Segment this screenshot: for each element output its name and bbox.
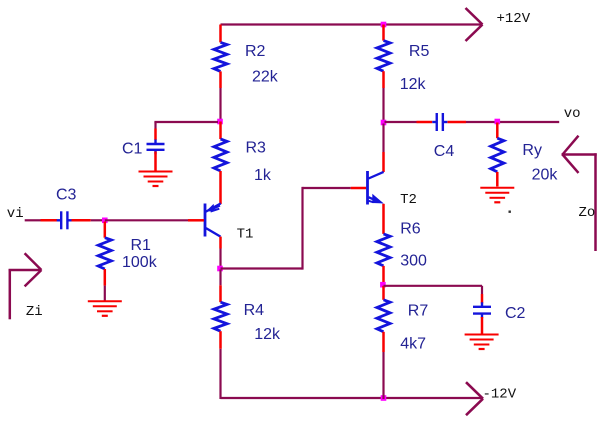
label R1 bbox=[131, 237, 152, 254]
label R6 bbox=[400, 221, 421, 238]
resistor Ry bbox=[491, 138, 504, 172]
wire C2 top pin bbox=[481, 294, 484, 303]
wire node B to T2 base bbox=[221, 187, 351, 270]
resistor R5 bbox=[377, 41, 390, 72]
wire C1 top pin bbox=[154, 129, 157, 141]
svg-text:12k: 12k bbox=[400, 76, 427, 93]
node top rail / R5 bbox=[381, 22, 387, 28]
label C3 bbox=[56, 186, 77, 203]
svg-text:R5: R5 bbox=[409, 43, 430, 60]
svg-text:-12V: -12V bbox=[483, 387, 517, 403]
svg-text:R7: R7 bbox=[408, 302, 429, 319]
capacitor C1 bbox=[147, 140, 165, 155]
wire C3 left pin bbox=[41, 219, 58, 222]
wire node D to C4 bbox=[385, 121, 417, 123]
svg-text:T1: T1 bbox=[237, 226, 254, 242]
wire R2 to node A bbox=[219, 88, 221, 121]
wire +12V top rail bbox=[221, 23, 482, 25]
wire R3 top pin bbox=[219, 122, 222, 140]
svg-text:C1: C1 bbox=[122, 140, 143, 157]
label R7 bbox=[408, 302, 429, 319]
wire T2 base pin bbox=[351, 187, 366, 190]
wire node E to C2 bbox=[384, 286, 483, 294]
svg-text:+12V: +12V bbox=[497, 11, 531, 27]
power arrow -12V bbox=[466, 382, 483, 415]
wire -12V bottom rail bbox=[221, 397, 482, 399]
ground below R1 bbox=[88, 301, 122, 316]
wire R1 bottom pin bbox=[104, 269, 107, 286]
svg-text:R4: R4 bbox=[244, 302, 265, 319]
wire R4 bottom pin bbox=[219, 331, 222, 349]
svg-text:Zo: Zo bbox=[579, 205, 596, 221]
wire Ry top pin bbox=[496, 123, 499, 139]
svg-text:T2: T2 bbox=[400, 192, 417, 208]
wire C4 to vo bbox=[466, 121, 559, 123]
ground below Ry bbox=[480, 188, 514, 203]
svg-text:R2: R2 bbox=[245, 43, 266, 60]
svg-text:12k: 12k bbox=[254, 326, 281, 343]
transistor T2 (NPN) bbox=[368, 171, 384, 205]
label R2 bbox=[245, 43, 266, 60]
impedance arrow Zi bbox=[9, 253, 42, 319]
svg-text:vo: vo bbox=[564, 106, 581, 122]
label T1 bbox=[237, 226, 254, 242]
svg-text:R3: R3 bbox=[246, 140, 267, 157]
impedance arrow Zo bbox=[562, 136, 597, 251]
wire T1 base pin bbox=[188, 219, 204, 222]
stray period mark bbox=[509, 211, 511, 213]
wire T2 collector pin bbox=[382, 152, 385, 172]
wire C4 left pin bbox=[417, 121, 433, 124]
node bottom rail / R7 bbox=[381, 395, 387, 401]
label Zo bbox=[579, 205, 596, 221]
label vo bbox=[564, 106, 581, 122]
wire R2 top pin bbox=[219, 25, 222, 43]
svg-text:C4: C4 bbox=[434, 143, 455, 160]
node C (C3/R1/T1 base) bbox=[102, 218, 108, 224]
label R4 bbox=[244, 302, 265, 319]
transistor T1 (PNP) bbox=[205, 203, 221, 236]
wire C1 bottom pin bbox=[154, 152, 157, 171]
wire node C to T1 base bbox=[105, 219, 188, 221]
wire node A to C1 bbox=[154, 122, 218, 129]
capacitor C3 bbox=[57, 211, 72, 229]
label Zi bbox=[26, 304, 43, 320]
capacitor C2 bbox=[473, 302, 491, 318]
capacitor C4 bbox=[432, 113, 447, 131]
resistor R7 bbox=[377, 300, 390, 332]
svg-text:1k: 1k bbox=[254, 167, 272, 184]
wire C3 to node C bbox=[91, 219, 103, 221]
wire C3 right pin bbox=[72, 219, 91, 222]
svg-text:4k7: 4k7 bbox=[400, 335, 426, 352]
value 100k bbox=[122, 254, 158, 271]
label T2 bbox=[400, 192, 417, 208]
wire node D to T2 collector bbox=[382, 124, 384, 153]
label Ry bbox=[522, 142, 542, 159]
svg-text:R6: R6 bbox=[400, 221, 421, 238]
wire C2 bottom pin bbox=[481, 317, 484, 334]
svg-text:20k: 20k bbox=[532, 166, 559, 183]
label -12V bbox=[483, 387, 517, 403]
wire R3 to T1 emitter bbox=[219, 171, 222, 204]
label C2 bbox=[505, 305, 526, 322]
wire R1 to ground bbox=[104, 286, 106, 301]
wire C4 right pin bbox=[448, 121, 467, 124]
power arrow +12V bbox=[466, 8, 483, 41]
wire input from vi bbox=[25, 219, 41, 221]
svg-text:C3: C3 bbox=[56, 186, 77, 203]
wire R5 bottom pin bbox=[382, 71, 385, 88]
svg-text:Zi: Zi bbox=[26, 304, 43, 320]
resistor R1 bbox=[98, 238, 111, 269]
svg-text:vi: vi bbox=[7, 206, 24, 222]
ground below C2 bbox=[465, 335, 499, 350]
wire R6 bottom pin bbox=[382, 266, 385, 284]
value 22k bbox=[252, 69, 279, 86]
value 300 bbox=[400, 253, 427, 270]
node E (R6/R7/C2) bbox=[380, 282, 386, 288]
wire T1 collector pin bbox=[219, 237, 222, 249]
wire Ry bottom pin bbox=[496, 172, 499, 187]
svg-text:100k: 100k bbox=[122, 254, 158, 271]
wire R7 top pin bbox=[382, 286, 385, 300]
label R5 bbox=[409, 43, 430, 60]
resistor R2 bbox=[214, 42, 227, 71]
wire R7 to bottom rail bbox=[382, 352, 384, 399]
label C1 bbox=[122, 140, 143, 157]
svg-text:C2: C2 bbox=[505, 305, 526, 322]
node B (T1 collector/R4/link) bbox=[217, 266, 223, 272]
value 12k bbox=[400, 76, 427, 93]
wire R2 bottom pin bbox=[219, 71, 222, 88]
ground below C1 bbox=[139, 172, 173, 187]
resistor R4 bbox=[214, 302, 227, 331]
resistor R6 bbox=[377, 234, 390, 266]
wire R5 top pin bbox=[382, 25, 385, 41]
label R3 bbox=[246, 140, 267, 157]
svg-text:Ry: Ry bbox=[522, 142, 542, 159]
value 12k bbox=[254, 326, 281, 343]
wire R7 bottom pin bbox=[382, 332, 385, 352]
wire T2 emitter pin bbox=[382, 204, 385, 234]
wire T1 collector to node B bbox=[219, 249, 221, 268]
value 20k bbox=[532, 166, 559, 183]
wire R5 to node D bbox=[382, 88, 384, 121]
wire R1 top pin bbox=[104, 222, 107, 238]
wire node B to R4 bbox=[219, 270, 221, 286]
svg-text:R1: R1 bbox=[131, 237, 152, 254]
node A (R2/R3/C1) bbox=[217, 119, 223, 125]
value 1k bbox=[254, 167, 272, 184]
resistor R3 bbox=[214, 139, 227, 171]
node F (C4/Ry/vo) bbox=[495, 119, 501, 125]
wire R4 top pin bbox=[219, 285, 222, 302]
node D (R5/T2/C4) bbox=[381, 120, 387, 126]
value 4k7 bbox=[400, 335, 426, 352]
svg-text:300: 300 bbox=[400, 253, 427, 270]
wire R4 to bottom rail bbox=[219, 349, 221, 399]
svg-text:22k: 22k bbox=[252, 69, 279, 86]
label vi bbox=[7, 206, 24, 222]
label C4 bbox=[434, 143, 455, 160]
label +12V bbox=[497, 11, 531, 27]
